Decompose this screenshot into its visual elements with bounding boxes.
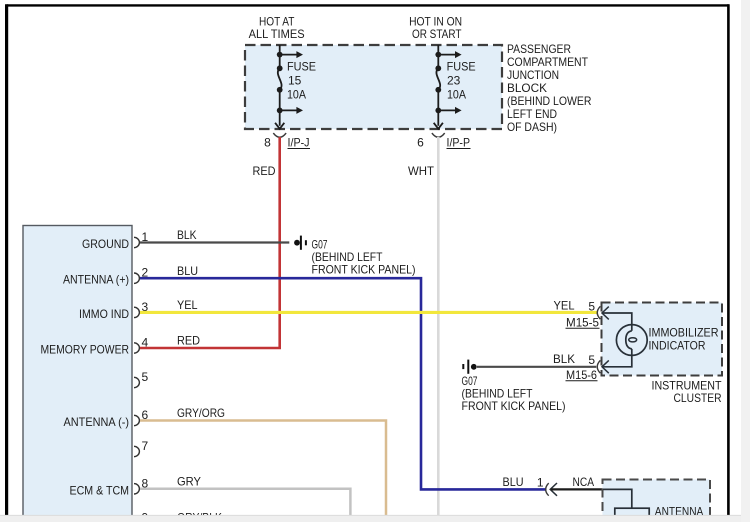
ground G07 (left, pin 1)	[294, 236, 415, 277]
svg-text:I/P-J: I/P-J	[288, 136, 310, 150]
svg-text:INDICATOR: INDICATOR	[649, 338, 706, 352]
antenna coil symbol	[603, 489, 649, 522]
svg-text:5: 5	[588, 299, 595, 313]
instrument cluster label	[652, 378, 723, 405]
label PASSENGER COMPARTMENT JUNCTION BLOCK	[507, 42, 592, 134]
svg-text:7: 7	[142, 439, 149, 453]
module connector box (transponder key module)	[23, 226, 132, 517]
fuse F15 10A	[275, 45, 297, 129]
connector M15-5 pin 5	[554, 299, 632, 330]
svg-text:FUSE: FUSE	[287, 60, 316, 74]
svg-text:I/P-P: I/P-P	[447, 136, 471, 150]
svg-text:JUNCTION: JUNCTION	[507, 68, 559, 82]
antenna box	[603, 480, 711, 522]
svg-text:BLK: BLK	[553, 352, 575, 366]
passenger compartment junction block box	[245, 45, 502, 129]
wire BLU pin2 to NCA joint	[140, 264, 547, 490]
svg-text:15: 15	[288, 73, 302, 87]
svg-text:YEL: YEL	[177, 298, 198, 312]
svg-text:1: 1	[537, 475, 544, 489]
svg-text:IMMO IND: IMMO IND	[79, 307, 129, 321]
pin 7	[134, 439, 149, 457]
wire BLK pin1 to G07	[140, 228, 289, 242]
wire GRY pin8	[140, 475, 350, 517]
wire NCA to antenna box	[551, 488, 603, 490]
inline connector pin 1 NCA	[537, 475, 594, 496]
svg-text:WHT: WHT	[408, 164, 435, 178]
svg-text:GRY/ORG: GRY/ORG	[177, 406, 225, 420]
svg-text:M15-6: M15-6	[566, 368, 597, 382]
svg-text:PASSENGER: PASSENGER	[507, 42, 571, 56]
svg-text:MEMORY POWER: MEMORY POWER	[41, 343, 130, 357]
svg-text:5: 5	[142, 370, 149, 384]
svg-text:YEL: YEL	[554, 299, 575, 313]
pin 8 ECM & TCM	[70, 476, 149, 497]
svg-text:GRY: GRY	[177, 475, 201, 489]
right scrollbar strip	[741, 0, 750, 522]
connector M15-6 pin 5	[566, 353, 632, 382]
label HOT IN ON OR START	[409, 15, 462, 41]
svg-text:BLOCK: BLOCK	[507, 81, 547, 95]
svg-text:8: 8	[264, 136, 271, 150]
svg-text:GROUND: GROUND	[82, 237, 129, 251]
svg-text:RED: RED	[253, 164, 276, 178]
svg-text:OF DASH): OF DASH)	[507, 120, 557, 134]
wire YEL pin3 to M15-5	[140, 298, 598, 312]
wire GRY/BLK pin9 (mostly hidden by bottom bar)	[177, 511, 222, 522]
svg-text:23: 23	[447, 73, 461, 87]
svg-text:NCA: NCA	[573, 475, 595, 489]
ground G07 (right) with wire BLK to M15-6	[462, 352, 597, 413]
svg-text:6: 6	[417, 136, 424, 150]
fuse F15 value label	[287, 60, 316, 102]
bottom scrollbar strip	[0, 515, 750, 522]
svg-text:ANTENNA (-): ANTENNA (-)	[64, 415, 130, 429]
svg-text:10A: 10A	[447, 87, 466, 101]
immobilizer indicator lamp	[616, 325, 647, 356]
svg-text:FRONT KICK PANEL): FRONT KICK PANEL)	[462, 399, 566, 413]
svg-text:BLU: BLU	[177, 264, 198, 278]
pin 9	[134, 511, 149, 522]
wire RED pin4 to fuse 15	[140, 137, 280, 348]
pin 1 GROUND	[82, 230, 149, 251]
fuse F23 value label	[447, 60, 476, 102]
svg-text:OR START: OR START	[412, 27, 462, 41]
pin 2 ANTENNA (+)	[63, 266, 149, 287]
connector I/P-P pin 6	[417, 133, 470, 150]
pin 6 ANTENNA (-)	[64, 408, 149, 429]
svg-text:ECM & TCM: ECM & TCM	[70, 483, 130, 497]
instrument cluster box (immobilizer indicator)	[602, 303, 723, 376]
svg-text:CLUSTER: CLUSTER	[674, 391, 722, 405]
svg-text:BLU: BLU	[503, 475, 524, 489]
svg-text:BLK: BLK	[177, 228, 197, 242]
svg-text:RED: RED	[177, 334, 200, 348]
wire GRY/ORG pin6	[140, 406, 386, 516]
svg-text:ALL TIMES: ALL TIMES	[249, 27, 305, 41]
svg-text:(BEHIND LOWER: (BEHIND LOWER	[507, 94, 592, 108]
svg-text:LEFT END: LEFT END	[507, 107, 557, 121]
connector I/P-J pin 8	[264, 133, 310, 150]
svg-text:5: 5	[588, 353, 595, 367]
pin 5	[134, 370, 149, 388]
svg-text:10A: 10A	[287, 87, 306, 101]
pin 3 IMMO IND	[79, 300, 149, 321]
svg-text:COMPARTMENT: COMPARTMENT	[507, 55, 589, 69]
fuse F23 10A	[434, 45, 456, 129]
wire WHT (fuse 23 down)	[408, 137, 438, 517]
pin 4 MEMORY POWER	[41, 336, 149, 357]
svg-text:M15-5: M15-5	[566, 316, 599, 330]
svg-text:IMMOBILIZER: IMMOBILIZER	[649, 325, 719, 339]
svg-text:FUSE: FUSE	[447, 60, 476, 74]
svg-text:FRONT KICK PANEL): FRONT KICK PANEL)	[312, 262, 416, 276]
svg-text:ANTENNA (+): ANTENNA (+)	[63, 273, 129, 287]
label HOT AT ALL TIMES	[249, 15, 305, 41]
